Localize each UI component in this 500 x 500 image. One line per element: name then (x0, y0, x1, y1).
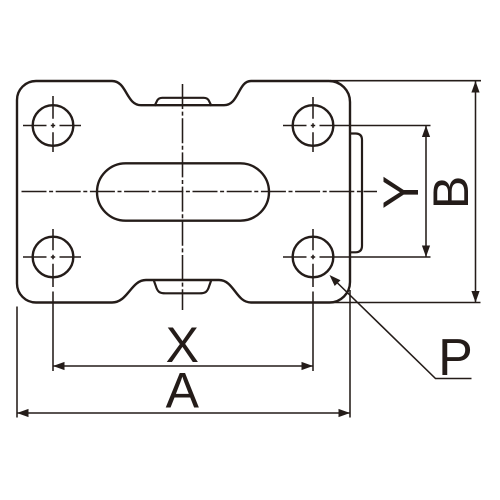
arrow P leader (330, 275, 341, 286)
bottom swage tab (154, 280, 212, 294)
svg-text:A: A (166, 363, 200, 419)
extension line B bottom (331, 302, 481, 304)
svg-text:Y: Y (373, 176, 429, 209)
dimension line Y (425, 126, 427, 258)
plate outline (17, 81, 350, 303)
arrow A right (339, 409, 351, 417)
dimension line B (475, 81, 477, 303)
arrow Y top (422, 126, 430, 138)
extension line B top (330, 80, 481, 82)
horizontal centerline (22, 191, 378, 193)
vertical centerline (182, 84, 184, 310)
svg-text:B: B (423, 176, 479, 209)
arrow B bottom (471, 291, 479, 303)
center slot (97, 163, 269, 220)
center mark hole top-left (23, 96, 81, 152)
arrow A left (17, 409, 29, 417)
arrow X right (302, 362, 314, 370)
right flange tab (350, 134, 363, 253)
bolt hole top-left (33, 105, 74, 146)
extension line A right (349, 290, 351, 418)
bolt hole bottom-left (33, 237, 74, 278)
bolt hole bottom-right (293, 237, 334, 278)
dimension line A (17, 412, 350, 414)
svg-text:P: P (438, 329, 473, 387)
arrow B top (471, 81, 479, 93)
arrow X left (53, 362, 65, 370)
top swage tab (155, 98, 212, 106)
center mark hole top-right (horizontal extends to Y dim) (283, 97, 431, 152)
arrow Y bottom (422, 246, 430, 258)
bolt hole top-right (293, 105, 334, 146)
center mark hole bottom-left (vertical extends to X dim) (23, 229, 81, 371)
leader line P (338, 283, 472, 379)
center mark hole bottom-right (extends to Y and X dims) (283, 229, 431, 371)
extension line A left (16, 307, 18, 418)
dimension line X (53, 365, 313, 367)
